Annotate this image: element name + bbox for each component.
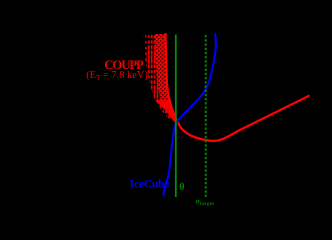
IceCube limit curve (blue) [163, 34, 216, 196]
COUPP exclusion band (dense right part) [155, 34, 177, 122]
svg-text:IceCube: IceCube [130, 179, 170, 191]
COUPP exclusion band (mid-density strip) [146, 34, 175, 122]
svg-text:(ET = 7.8 keV): (ET = 7.8 keV) [86, 70, 148, 82]
COUPP band solid tip [155, 100, 177, 123]
COUPP exclusion band (sparse left part) [144, 34, 177, 122]
green dotted vertical line [205, 35, 207, 198]
svg-text:θ: θ [179, 182, 184, 193]
green solid vertical line [175, 35, 177, 198]
COUPP limit curve (red, band right boundary continuing to rising line) [166, 34, 309, 141]
